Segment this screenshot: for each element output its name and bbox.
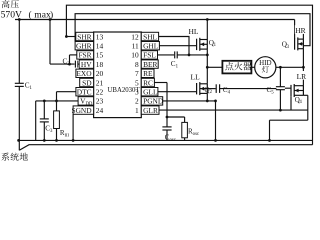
svg-text:2: 2 — [135, 97, 139, 106]
svg-text:RE: RE — [143, 69, 153, 78]
svg-text:HID: HID — [259, 59, 271, 67]
svg-text:12: 12 — [131, 32, 139, 41]
svg-text:15: 15 — [96, 51, 104, 60]
svg-text:BER: BER — [143, 60, 157, 69]
svg-text:13: 13 — [96, 32, 104, 41]
svg-text:1: 1 — [135, 106, 139, 115]
svg-text:24: 24 — [96, 106, 104, 115]
svg-text:GHR: GHR — [76, 42, 92, 51]
svg-text:SHL: SHL — [143, 32, 157, 41]
svg-text:HV: HV — [81, 60, 92, 69]
svg-text:SGND: SGND — [71, 106, 92, 115]
svg-text:LR: LR — [297, 72, 307, 81]
svg-text:10: 10 — [131, 51, 139, 60]
svg-text:23: 23 — [96, 97, 104, 106]
svg-text:18: 18 — [96, 60, 104, 69]
svg-text:RC: RC — [143, 78, 153, 87]
svg-text:DTC: DTC — [77, 88, 92, 97]
svg-text:14: 14 — [96, 42, 104, 51]
svg-text:SHR: SHR — [77, 32, 91, 41]
svg-text:LL: LL — [191, 72, 201, 81]
svg-text:20: 20 — [96, 69, 104, 78]
svg-text:11: 11 — [132, 42, 139, 51]
svg-text:GLR: GLR — [143, 106, 158, 115]
svg-text:7: 7 — [135, 69, 139, 78]
svg-text:UBA2030T: UBA2030T — [108, 87, 141, 94]
svg-text:EXO: EXO — [76, 69, 92, 78]
svg-text:PGND: PGND — [143, 97, 164, 106]
svg-text:21: 21 — [96, 78, 104, 87]
svg-text:SD: SD — [82, 78, 92, 87]
svg-text:8: 8 — [135, 60, 139, 69]
svg-text:GHL: GHL — [143, 42, 159, 51]
svg-text:22: 22 — [96, 88, 104, 97]
svg-text:FSR: FSR — [78, 51, 91, 60]
svg-text:HL: HL — [189, 27, 199, 36]
svg-text:HR: HR — [295, 26, 305, 35]
svg-text:GLL: GLL — [143, 88, 158, 97]
svg-text:FSL: FSL — [143, 51, 156, 60]
